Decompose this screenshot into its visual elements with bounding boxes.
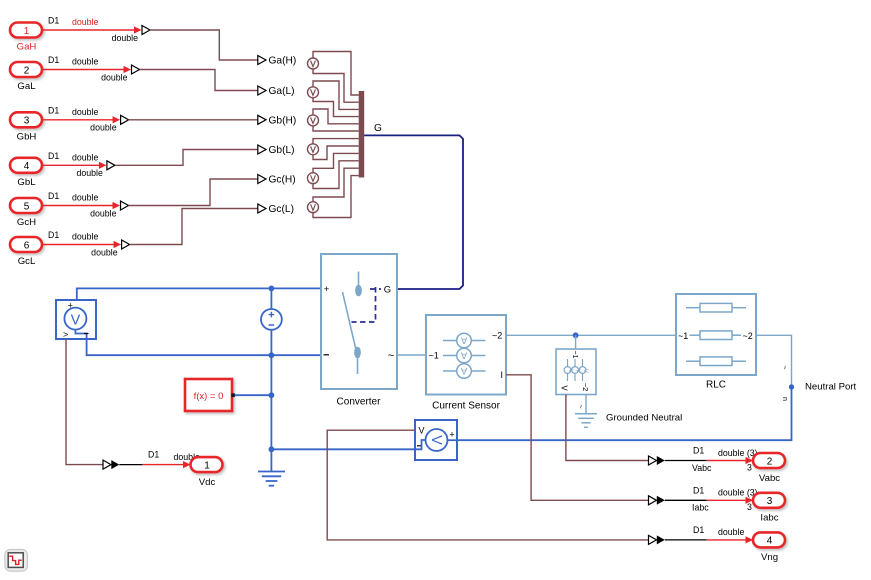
svg-text:~2: ~2 — [581, 383, 590, 392]
svg-text:double: double — [718, 527, 745, 537]
current sensor U3 — [426, 315, 506, 395]
SECTION: legend icon — [5, 550, 28, 572]
wire V4 top to bus — [313, 139, 359, 144]
wire V3 top to bus — [313, 109, 359, 124]
wire neutral node to VM2 + (blue) — [457, 387, 792, 440]
svg-text:double: double — [90, 208, 117, 218]
outport 2 Vabc — [753, 453, 785, 484]
svg-text:Vdc: Vdc — [199, 477, 216, 488]
gate dashed line — [352, 287, 382, 322]
wire row5 to Gc(H) — [129, 179, 258, 206]
wire VM1- down and to converter - (blue) — [87, 339, 321, 355]
junction dot minus row — [269, 352, 275, 358]
svg-text:D1: D1 — [693, 446, 704, 456]
node Ga(H) — [258, 56, 296, 67]
svg-text:2: 2 — [767, 456, 773, 467]
svg-text:Gb(H): Gb(H) — [269, 116, 297, 127]
svg-text:double: double — [112, 33, 139, 43]
PS-simulink converter Iabc — [649, 496, 665, 505]
node Gb(H) — [258, 115, 296, 126]
simulink-PS converter row3 — [121, 115, 129, 124]
svg-text:~2: ~2 — [743, 331, 753, 341]
RLC block U5 — [676, 294, 756, 375]
svg-text:Gb(L): Gb(L) — [269, 145, 295, 156]
svg-text:double: double — [90, 123, 117, 133]
svg-text:~1: ~1 — [429, 351, 439, 361]
svg-text:D1: D1 — [48, 16, 59, 26]
wire VM2 V output to Vng converter (maroon) — [327, 430, 648, 540]
DC voltage source B1 — [261, 309, 282, 330]
svg-text:Iabc: Iabc — [760, 513, 778, 524]
svg-text:D1: D1 — [48, 151, 59, 161]
svg-text:1: 1 — [24, 26, 30, 37]
wire to outport Vng — [665, 525, 753, 544]
wire port5 (red) — [42, 191, 120, 218]
svg-text:6: 6 — [24, 240, 30, 251]
svg-text:V: V — [560, 385, 569, 391]
svg-text:Neutral Port: Neutral Port — [805, 382, 857, 393]
wire row1 to Ga(H) — [150, 30, 258, 60]
SECTION: outputs — [66, 339, 785, 563]
wire converter ~ to current sensor (light blue) — [397, 354, 426, 356]
voltage measurement U6 (Vng) — [415, 420, 457, 460]
svg-text:double: double — [72, 193, 99, 203]
svg-text:~: ~ — [388, 350, 394, 362]
svg-text:A: A — [460, 335, 467, 346]
wire G bus to converter gate (navy) — [364, 135, 463, 289]
wire port4 (red) — [42, 151, 106, 178]
junction dot grounded neutral — [573, 332, 579, 338]
simulink-PS converter row1 — [142, 26, 150, 35]
svg-text:double: double — [72, 152, 99, 162]
svg-text:RLC: RLC — [706, 380, 726, 391]
outport 3 Iabc — [753, 493, 785, 524]
svg-text:~1: ~1 — [678, 331, 688, 341]
wire junction to GN block — [575, 335, 577, 349]
svg-text:3: 3 — [747, 462, 752, 472]
svg-text:Iabc: Iabc — [692, 503, 709, 513]
svg-text:~: ~ — [577, 405, 584, 409]
svg-text:double: double — [91, 247, 118, 257]
PS-simulink converter Vng — [649, 535, 665, 544]
svg-text:G: G — [384, 285, 391, 296]
wire V3 bottom to bus — [313, 126, 359, 131]
wire VM1+ to converter + (blue) — [77, 288, 321, 300]
wire port3 (red) — [42, 105, 120, 132]
svg-text:Gc(H): Gc(H) — [269, 175, 296, 186]
converter U2 — [321, 254, 397, 389]
node Neutral Port dot — [789, 384, 794, 389]
svg-text:V: V — [428, 435, 444, 445]
svg-text:GcH: GcH — [17, 217, 36, 228]
wire junction to VM2 - (blue) — [271, 448, 415, 450]
wire solver to node (blue) — [235, 394, 272, 396]
wire RLC ~2 to neutral node (light blue) — [756, 335, 792, 387]
svg-text:Vabc: Vabc — [759, 473, 780, 484]
svg-text:D1: D1 — [693, 485, 704, 495]
svg-text:+: + — [324, 284, 330, 295]
wire row3 to Gb(H) — [129, 119, 258, 121]
SECTION: main circuit — [56, 254, 857, 486]
svg-text:Gc(L): Gc(L) — [269, 204, 294, 215]
svg-text:~: ~ — [781, 366, 788, 370]
svg-text:3: 3 — [747, 502, 752, 512]
svg-text:1: 1 — [204, 460, 210, 471]
svg-text:A: A — [460, 365, 467, 376]
bus bar G — [359, 91, 365, 178]
svg-text:double: double — [72, 57, 99, 67]
gate source V1 — [308, 58, 319, 69]
inport 6 GcL — [10, 237, 42, 267]
wire V6 top to bus — [313, 168, 359, 202]
switch symbol — [358, 272, 360, 286]
svg-text:double: double — [72, 107, 99, 117]
wire CS ~2 to RLC ~1 (light blue) — [506, 334, 676, 336]
svg-text:GaH: GaH — [17, 42, 37, 53]
svg-text:V: V — [567, 369, 574, 374]
svg-text:~2: ~2 — [492, 330, 502, 340]
outport 1 Vdc — [191, 457, 223, 488]
wire GN ~2 to ground (light blue) — [585, 395, 587, 414]
svg-text:5: 5 — [24, 201, 30, 212]
svg-text:~1: ~1 — [571, 351, 578, 359]
junction dot vm2 row — [269, 446, 275, 452]
inport 1 GaH — [10, 23, 42, 53]
PS-simulink converter Vabc — [649, 456, 665, 465]
svg-text:Grounded Neutral: Grounded Neutral — [606, 412, 682, 423]
wire V6 bottom to bus — [313, 176, 359, 218]
simulink-PS converter row4 — [107, 161, 115, 170]
gate source V6 — [308, 202, 319, 213]
svg-text:D1: D1 — [48, 230, 59, 240]
svg-text:double: double — [76, 168, 103, 178]
wire row4 to Gb(L) — [115, 150, 258, 166]
svg-text:n: n — [781, 397, 788, 401]
wire V2 top to bus — [313, 81, 359, 109]
wire V1 bottom to bus — [313, 69, 359, 102]
svg-text:4: 4 — [24, 161, 30, 172]
PS-simulink converter Vdc — [103, 460, 119, 469]
voltage measurement U1 — [56, 300, 96, 340]
svg-text:Current Sensor: Current Sensor — [432, 401, 500, 412]
svg-text:f(x) = 0: f(x) = 0 — [194, 391, 224, 402]
wire GN V output to Vabc converter (maroon) — [566, 395, 649, 461]
junction dot solver row — [269, 392, 275, 398]
node Gb(L) — [258, 145, 295, 156]
svg-text:D1: D1 — [148, 450, 159, 460]
wire V2 bottom to bus — [313, 98, 359, 117]
svg-text:double: double — [72, 232, 99, 242]
svg-text:GbL: GbL — [17, 177, 36, 188]
outport 4 Vng — [753, 532, 785, 563]
wire to outport Vdc — [119, 450, 200, 469]
svg-text:4: 4 — [767, 536, 773, 547]
wire VM1 output to Vdc converter (maroon) — [66, 339, 103, 465]
junction dot top — [269, 286, 275, 292]
SECTION: input ports — [10, 16, 258, 268]
ground G2 (light blue) — [575, 414, 597, 428]
node Ga(L) — [258, 86, 295, 97]
svg-text:>: > — [63, 330, 68, 340]
solver configuration f(x)=0 — [185, 379, 235, 411]
svg-text:D1: D1 — [693, 525, 704, 535]
wire port1 to converter (red) — [42, 16, 142, 43]
svg-text:double (3): double (3) — [718, 488, 758, 498]
svg-text:+: + — [449, 430, 454, 440]
svg-text:GaL: GaL — [17, 81, 36, 92]
wire row2 to Ga(L) — [140, 70, 258, 91]
grounded neutral block U4 — [556, 349, 596, 395]
inport 2 GaL — [10, 62, 42, 92]
wire V5 top to bus — [313, 153, 359, 172]
wire port6 (red) — [42, 230, 121, 257]
svg-text:Ga(L): Ga(L) — [269, 86, 295, 97]
gate source V5 — [308, 173, 319, 184]
gate source V4 — [308, 144, 319, 155]
svg-text:Ga(H): Ga(H) — [269, 56, 297, 67]
wire V4 bottom to bus — [313, 146, 359, 160]
svg-text:double (3): double (3) — [718, 448, 758, 458]
wire V5 bottom to bus — [313, 161, 359, 189]
wire row6 to Gc(L) — [130, 209, 258, 245]
svg-text:Vabc: Vabc — [692, 463, 712, 473]
svg-text:3: 3 — [24, 116, 30, 127]
inport 4 GbL — [10, 158, 42, 188]
node Gc(H) — [258, 175, 296, 186]
svg-text:V: V — [418, 426, 424, 436]
svg-text:double: double — [101, 72, 128, 82]
svg-text:V: V — [582, 369, 589, 374]
svg-text:D1: D1 — [48, 55, 59, 65]
svg-text:D1: D1 — [48, 191, 59, 201]
svg-text:+: + — [68, 301, 73, 311]
svg-text:V: V — [574, 369, 581, 374]
node Gc(L) — [258, 204, 294, 215]
svg-text:I: I — [501, 370, 504, 380]
svg-text:3: 3 — [767, 496, 773, 507]
svg-text:Converter: Converter — [337, 397, 382, 408]
gate source V2 — [308, 87, 319, 98]
gate source V3 — [308, 115, 319, 126]
ground G1 (blue) — [258, 472, 285, 486]
svg-text:D1: D1 — [48, 105, 59, 115]
wire DC source vertical (blue) — [270, 288, 272, 471]
wire port2 (red) — [42, 55, 131, 82]
inport 3 GbH — [10, 112, 42, 142]
simulink-PS converter row2 — [132, 65, 140, 74]
wire CS I output to Iabc converter (maroon) — [506, 375, 649, 501]
svg-text:double: double — [72, 17, 99, 27]
svg-text:GcL: GcL — [18, 256, 36, 267]
svg-text:GbH: GbH — [17, 131, 37, 142]
SECTION: bus — [308, 52, 464, 290]
wire to outport Vabc — [665, 446, 758, 473]
svg-text:Vng: Vng — [761, 552, 778, 563]
wire to outport Iabc — [665, 485, 758, 512]
svg-text:V: V — [71, 312, 81, 328]
simulink-PS converter row5 — [121, 201, 129, 210]
svg-text:A: A — [460, 350, 467, 361]
svg-text:2: 2 — [24, 65, 30, 76]
wire V1 top to bus — [313, 52, 359, 96]
inport 5 GcH — [10, 198, 42, 228]
SECTION: gate label rows — [258, 56, 296, 216]
svg-text:G: G — [374, 123, 382, 134]
simulink-PS converter row6 — [122, 240, 130, 249]
